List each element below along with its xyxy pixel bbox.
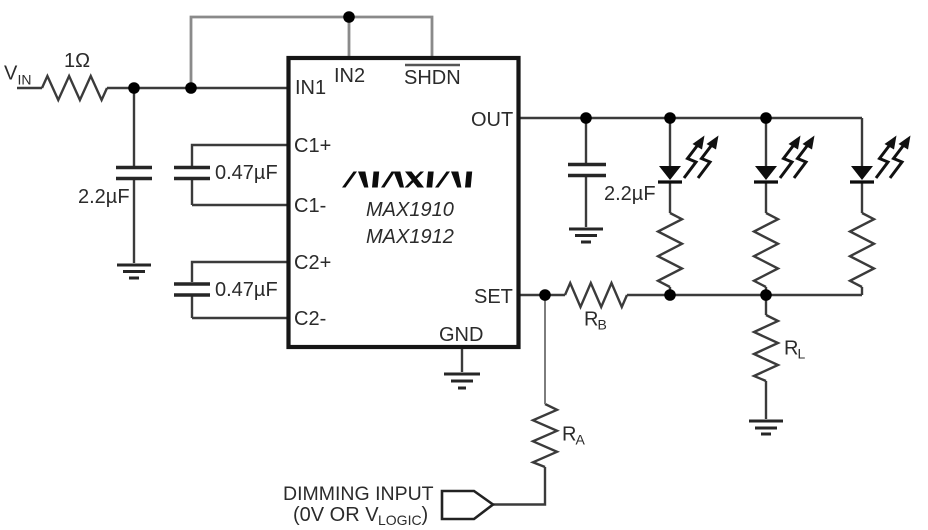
svg-text:DIMMING INPUT: DIMMING INPUT [283,483,434,505]
svg-text:LOGIC: LOGIC [378,512,422,528]
svg-text:C2-: C2- [294,308,326,330]
svg-text:SET: SET [474,286,513,308]
svg-text:R: R [562,424,576,446]
svg-text:2.2µF: 2.2µF [78,186,130,208]
svg-text:2.2µF: 2.2µF [604,183,656,205]
svg-text:IN1: IN1 [295,77,326,99]
svg-text:R: R [784,338,798,360]
svg-text:V: V [4,63,18,85]
svg-text:MAX1910: MAX1910 [366,199,454,221]
svg-text:SHDN: SHDN [404,67,461,89]
svg-text:C1-: C1- [294,195,326,217]
svg-text:0.47µF: 0.47µF [215,279,278,301]
svg-text:B: B [598,317,607,333]
svg-text:1Ω: 1Ω [64,50,90,72]
svg-text:OUT: OUT [471,109,513,131]
svg-text:GND: GND [439,324,483,346]
svg-text:C1+: C1+ [294,135,331,157]
svg-text:C2+: C2+ [294,252,331,274]
svg-text:(0V OR V: (0V OR V [293,504,379,526]
svg-text:0.47µF: 0.47µF [215,162,278,184]
svg-text:MAX1912: MAX1912 [366,226,454,248]
svg-text:IN: IN [18,72,32,88]
svg-text:R: R [584,309,598,331]
svg-text:IN2: IN2 [334,65,365,87]
svg-text:): ) [422,504,429,526]
svg-text:L: L [798,346,806,362]
svg-text:A: A [576,432,586,448]
